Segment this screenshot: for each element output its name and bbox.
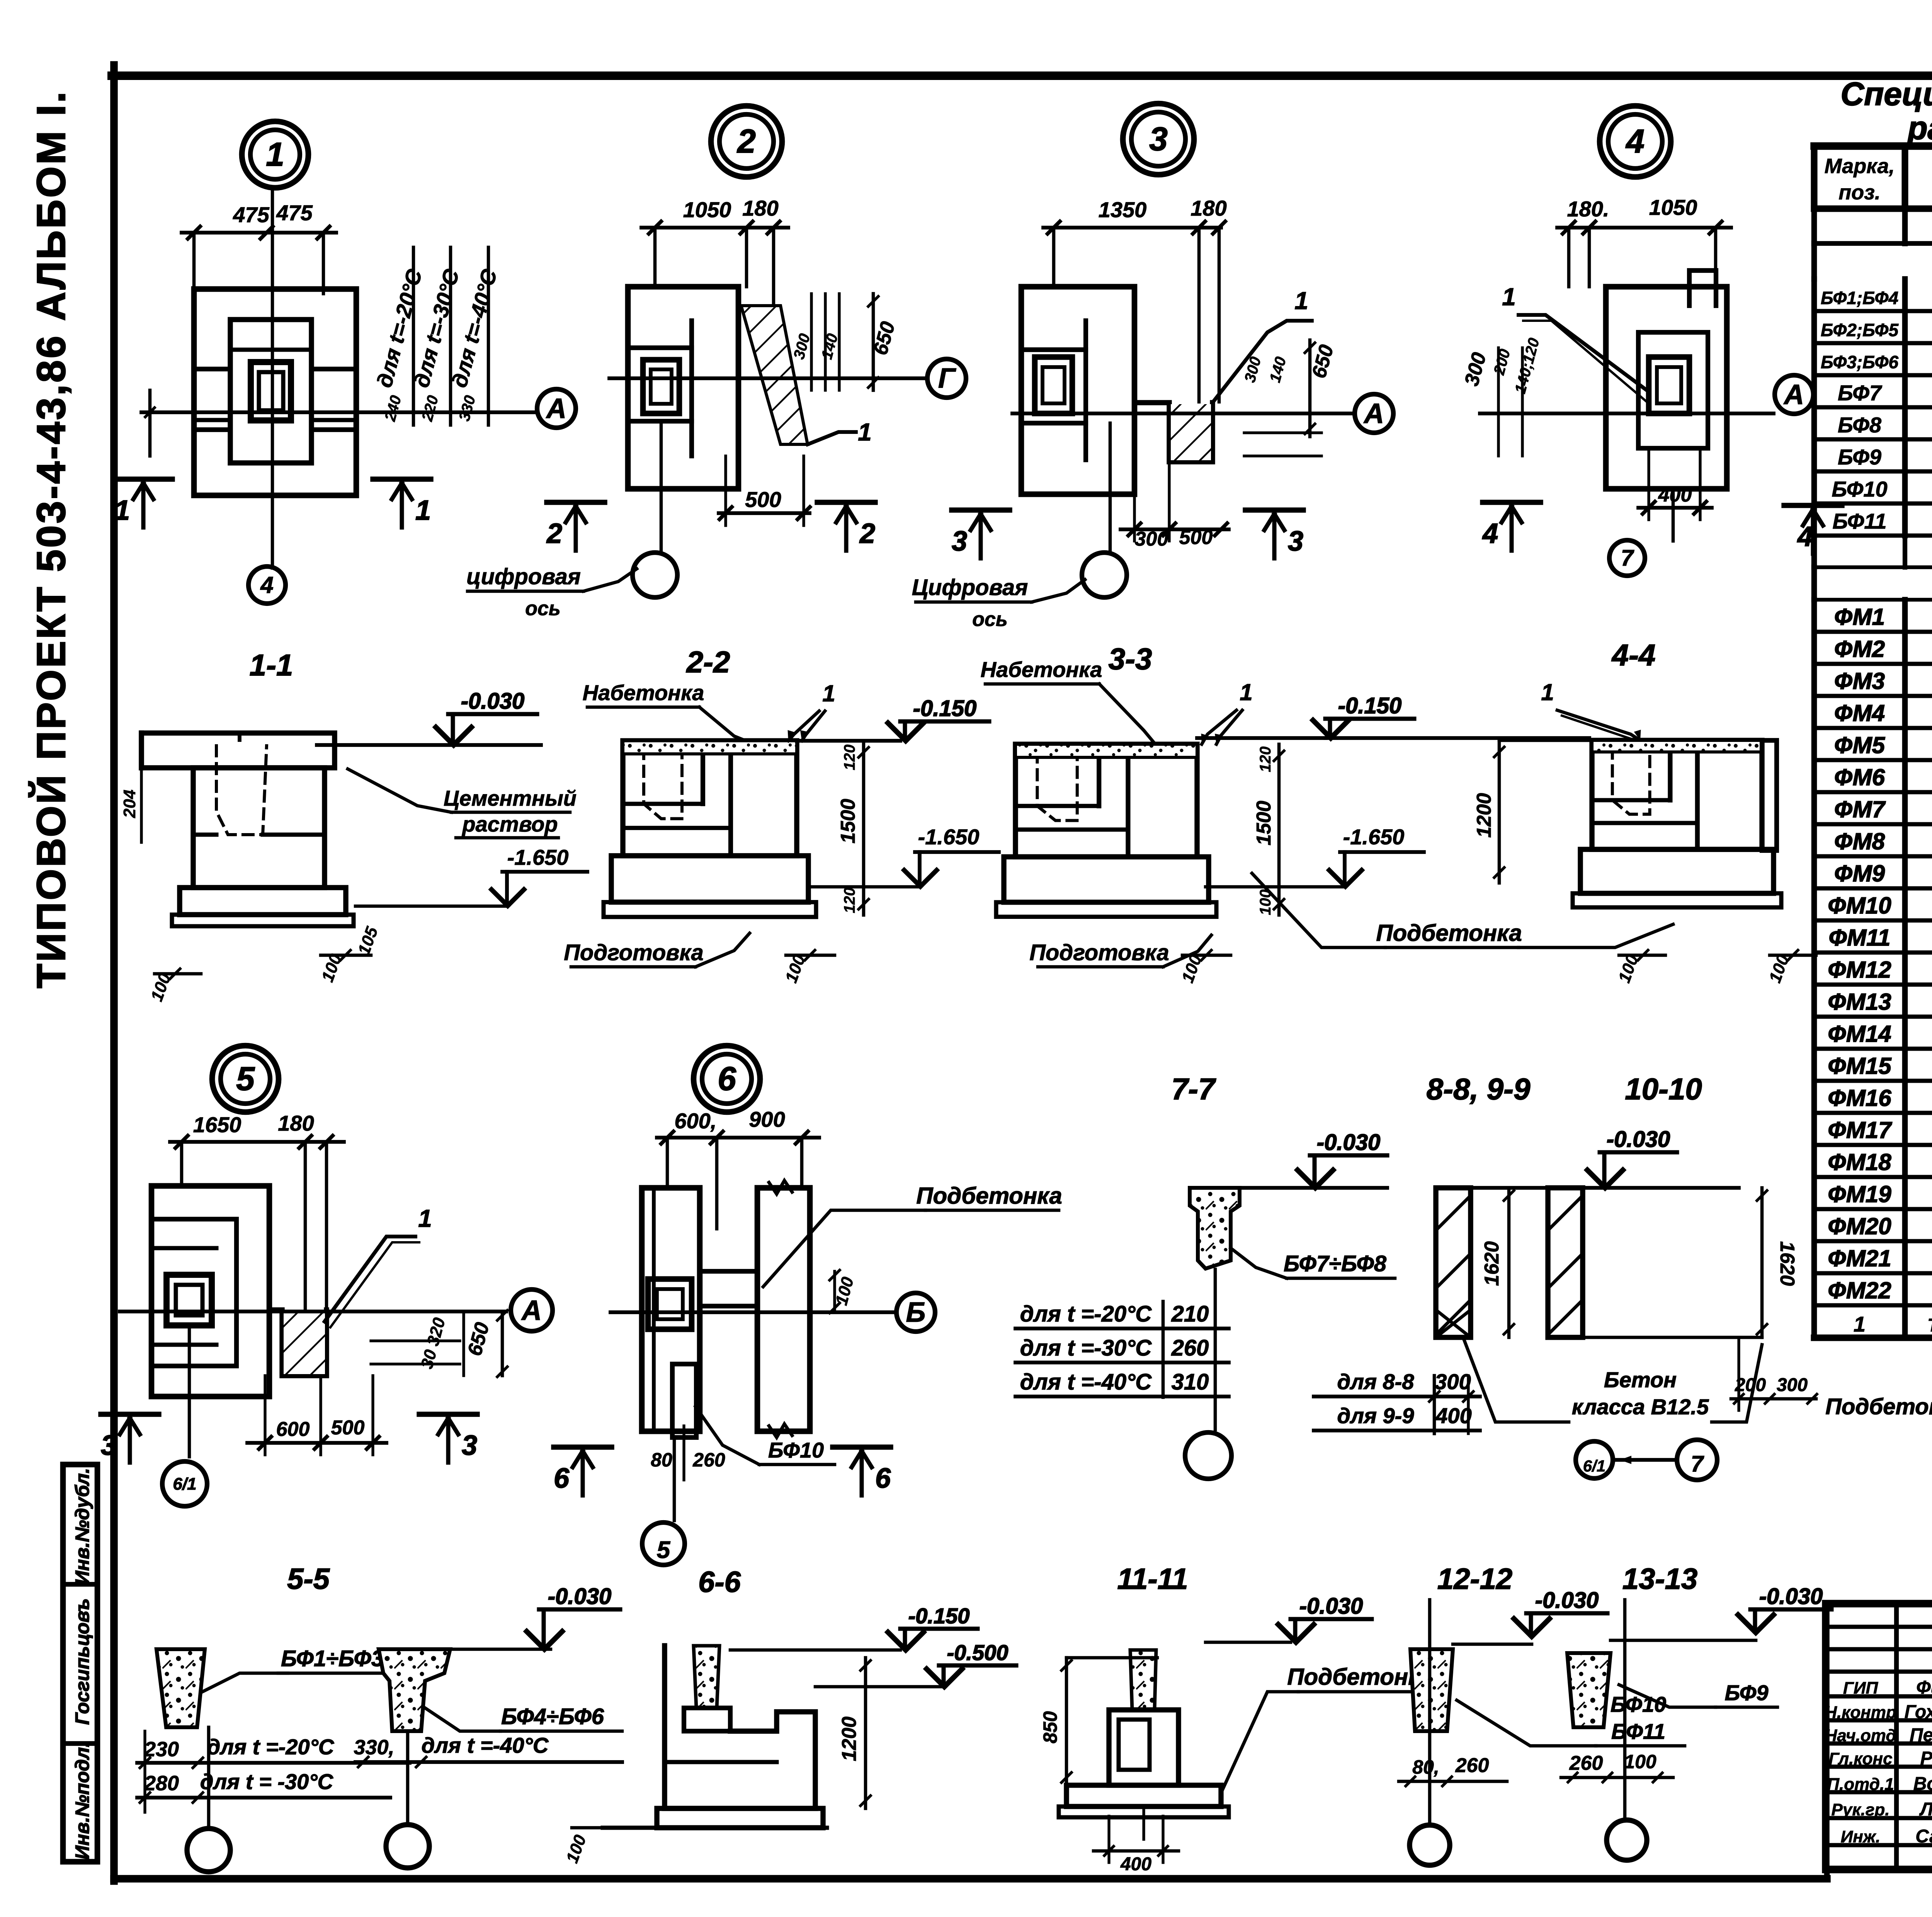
svg-text:ось: ось <box>972 608 1008 631</box>
svg-text:400: 400 <box>1435 1403 1471 1428</box>
svg-text:1: 1 <box>418 1204 432 1232</box>
svg-text:2: 2 <box>859 518 875 549</box>
svg-text:А: А <box>546 393 566 424</box>
svg-text:БФ1÷БФ3: БФ1÷БФ3 <box>281 1646 384 1671</box>
svg-text:475: 475 <box>233 202 269 227</box>
svg-text:ФМ21: ФМ21 <box>1828 1245 1891 1271</box>
svg-text:для t =-40°С: для t =-40°С <box>422 1733 549 1757</box>
svg-text:1050: 1050 <box>683 197 731 222</box>
svg-text:500: 500 <box>745 487 781 512</box>
svg-text:10-10: 10-10 <box>1625 1072 1702 1106</box>
svg-text:ФМ22: ФМ22 <box>1828 1277 1891 1303</box>
svg-text:260: 260 <box>1569 1752 1603 1774</box>
svg-text:5: 5 <box>236 1060 255 1097</box>
svg-text:1500: 1500 <box>837 799 859 844</box>
svg-text:210: 210 <box>1171 1301 1209 1327</box>
svg-text:1: 1 <box>1541 679 1554 705</box>
svg-text:80,: 80, <box>1412 1756 1439 1778</box>
svg-text:260: 260 <box>1455 1754 1489 1777</box>
svg-text:1: 1 <box>114 495 130 526</box>
svg-text:180.: 180. <box>1567 197 1609 221</box>
svg-text:ТП503-4-43.86Альбом IV: ТП503-4-43.86Альбом IV <box>1927 1315 1932 1336</box>
svg-text:Сабчук: Сабчук <box>1915 1826 1932 1847</box>
svg-text:204: 204 <box>120 789 139 818</box>
svg-text:Инв.№подл.: Инв.№подл. <box>71 1742 93 1860</box>
svg-text:1200: 1200 <box>1473 793 1495 838</box>
svg-text:А: А <box>1783 379 1804 410</box>
svg-text:330,: 330, <box>354 1736 394 1759</box>
svg-text:Инж.: Инж. <box>1841 1827 1881 1846</box>
svg-text:500: 500 <box>331 1417 365 1439</box>
svg-text:ФМ6: ФМ6 <box>1834 764 1885 790</box>
svg-text:П.отд.1: П.отд.1 <box>1827 1775 1894 1794</box>
svg-text:ФМ12: ФМ12 <box>1828 957 1891 983</box>
svg-text:7: 7 <box>1621 546 1634 571</box>
svg-text:БФ4÷БФ6: БФ4÷БФ6 <box>501 1704 604 1729</box>
svg-text:7-7: 7-7 <box>1172 1072 1216 1106</box>
svg-text:2: 2 <box>736 123 756 160</box>
svg-text:Г: Г <box>938 363 956 394</box>
svg-text:класса В12.5: класса В12.5 <box>1572 1395 1709 1419</box>
svg-text:1500: 1500 <box>1253 801 1275 845</box>
svg-text:280: 280 <box>144 1772 179 1795</box>
svg-text:5-5: 5-5 <box>287 1563 330 1596</box>
svg-text:-1.650: -1.650 <box>507 845 569 869</box>
svg-text:ФМ8: ФМ8 <box>1834 828 1885 854</box>
svg-text:А: А <box>521 1295 542 1326</box>
svg-text:ФМ19: ФМ19 <box>1828 1181 1891 1207</box>
svg-text:300: 300 <box>1435 1369 1471 1394</box>
svg-text:6-6: 6-6 <box>698 1566 741 1599</box>
svg-text:ФМ17: ФМ17 <box>1828 1117 1892 1143</box>
svg-text:-0.030: -0.030 <box>1759 1584 1823 1609</box>
svg-text:180: 180 <box>1190 196 1226 220</box>
svg-text:БФ8: БФ8 <box>1838 413 1882 437</box>
svg-text:Н.контр: Н.контр <box>1825 1703 1896 1722</box>
svg-text:400: 400 <box>1120 1854 1151 1874</box>
svg-text:БФ1;БФ4: БФ1;БФ4 <box>1821 288 1898 308</box>
svg-text:Подбетонка: Подбетонка <box>916 1183 1062 1209</box>
svg-text:ФМ9: ФМ9 <box>1834 861 1885 886</box>
svg-text:300: 300 <box>1135 528 1168 550</box>
svg-text:Воинов: Воинов <box>1913 1774 1932 1794</box>
svg-text:ФМ5: ФМ5 <box>1834 732 1886 758</box>
svg-text:Подготовка: Подготовка <box>1029 940 1169 965</box>
svg-text:Б: Б <box>906 1297 926 1328</box>
svg-text:Фишер: Фишер <box>1916 1677 1932 1698</box>
svg-text:ФМ13: ФМ13 <box>1828 989 1891 1015</box>
svg-text:180: 180 <box>278 1111 314 1135</box>
svg-text:1: 1 <box>415 495 431 526</box>
svg-text:3: 3 <box>1288 526 1303 557</box>
svg-text:Спецификация элементов к: Спецификация элементов к схеме <box>1840 76 1932 112</box>
svg-text:120: 120 <box>1257 747 1274 772</box>
svg-text:ГИП: ГИП <box>1843 1679 1879 1698</box>
svg-text:3: 3 <box>1149 121 1168 158</box>
svg-text:Лесец: Лесец <box>1919 1799 1932 1820</box>
svg-text:-0.030: -0.030 <box>1535 1588 1599 1613</box>
svg-text:ФМ2: ФМ2 <box>1834 636 1885 662</box>
svg-text:7: 7 <box>1691 1451 1704 1476</box>
svg-text:1: 1 <box>1854 1312 1866 1336</box>
svg-text:Нач.отд: Нач.отд <box>1825 1726 1896 1745</box>
svg-text:БФ10: БФ10 <box>768 1438 824 1462</box>
svg-text:ФМ18: ФМ18 <box>1828 1149 1891 1175</box>
svg-text:80: 80 <box>651 1449 672 1471</box>
svg-text:1650: 1650 <box>193 1112 241 1137</box>
svg-text:ФМ15: ФМ15 <box>1828 1053 1892 1079</box>
svg-text:1350: 1350 <box>1099 197 1147 222</box>
svg-text:3: 3 <box>462 1430 477 1461</box>
svg-text:ФМ4: ФМ4 <box>1834 700 1885 726</box>
svg-text:120: 120 <box>841 888 858 913</box>
svg-text:-0.030: -0.030 <box>1317 1130 1380 1155</box>
svg-text:4: 4 <box>1482 518 1498 549</box>
svg-text:ТИПОВОЙ ПРОЕКТ 503-4-43,86: ТИПОВОЙ ПРОЕКТ 503-4-43,86 АЛЬБОМ I. <box>29 90 74 988</box>
svg-text:Подготовка: Подготовка <box>564 940 704 965</box>
svg-text:900: 900 <box>749 1107 785 1131</box>
svg-text:ФМ3: ФМ3 <box>1834 668 1885 694</box>
svg-text:120: 120 <box>841 745 858 771</box>
svg-text:3: 3 <box>952 526 967 557</box>
svg-text:-0.500: -0.500 <box>947 1640 1009 1665</box>
svg-text:БФ7: БФ7 <box>1838 381 1883 405</box>
svg-text:1-1: 1-1 <box>250 648 293 682</box>
svg-text:ось: ось <box>525 597 561 620</box>
svg-text:для t =-40°С: для t =-40°С <box>1020 1369 1152 1395</box>
svg-text:1050: 1050 <box>1649 195 1697 219</box>
svg-text:4-4: 4-4 <box>1611 638 1656 672</box>
svg-text:1: 1 <box>858 418 872 446</box>
svg-text:Марка,: Марка, <box>1825 155 1895 178</box>
svg-text:для t =-20°С: для t =-20°С <box>1020 1301 1152 1327</box>
svg-text:БФ3;БФ6: БФ3;БФ6 <box>1821 352 1898 372</box>
svg-text:12-12: 12-12 <box>1437 1563 1512 1596</box>
svg-text:ФМ7: ФМ7 <box>1834 796 1886 822</box>
svg-text:6: 6 <box>554 1463 570 1494</box>
svg-text:600: 600 <box>276 1418 310 1441</box>
svg-text:ФМ16: ФМ16 <box>1828 1085 1891 1111</box>
svg-text:3: 3 <box>101 1430 116 1461</box>
svg-text:БФ7÷БФ8: БФ7÷БФ8 <box>1284 1251 1387 1276</box>
svg-text:Подбетонка: Подбетонка <box>1376 920 1522 946</box>
svg-text:-0.030: -0.030 <box>1299 1594 1363 1619</box>
svg-text:ФМ10: ФМ10 <box>1828 893 1891 919</box>
svg-text:Набетонка: Набетонка <box>583 680 704 705</box>
svg-text:1: 1 <box>1294 287 1308 315</box>
svg-text:-0.150: -0.150 <box>908 1604 970 1628</box>
svg-text:475: 475 <box>276 201 313 225</box>
svg-text:6: 6 <box>718 1060 736 1097</box>
svg-text:для 8-8: для 8-8 <box>1337 1369 1415 1394</box>
svg-text:БФ11: БФ11 <box>1611 1719 1665 1744</box>
svg-text:11-11: 11-11 <box>1117 1563 1188 1596</box>
svg-text:4: 4 <box>1625 123 1645 160</box>
svg-text:13-13: 13-13 <box>1622 1563 1697 1596</box>
svg-text:4: 4 <box>260 572 273 598</box>
svg-text:Подбетонки и набетонки выпо: Подбетонки и набетонки выполнять из бето… <box>1825 1394 1932 1419</box>
svg-text:5: 5 <box>657 1537 671 1563</box>
svg-text:260: 260 <box>692 1449 725 1471</box>
svg-text:180: 180 <box>742 196 778 220</box>
svg-text:1620: 1620 <box>1481 1241 1503 1286</box>
svg-text:А: А <box>1363 398 1384 429</box>
svg-text:1620: 1620 <box>1776 1241 1798 1286</box>
svg-text:Цементный: Цементный <box>444 786 577 810</box>
svg-text:8-8, 9-9: 8-8, 9-9 <box>1427 1072 1531 1106</box>
svg-text:БФ10: БФ10 <box>1832 477 1887 501</box>
svg-text:-1.650: -1.650 <box>1343 825 1405 849</box>
svg-text:300: 300 <box>1777 1375 1808 1395</box>
svg-text:-0.150: -0.150 <box>913 696 976 721</box>
svg-text:1: 1 <box>822 680 835 706</box>
svg-text:1: 1 <box>1502 283 1516 311</box>
svg-text:Инв.№дубл.: Инв.№дубл. <box>71 1468 93 1585</box>
svg-text:2: 2 <box>546 518 562 549</box>
svg-text:400: 400 <box>1658 484 1692 506</box>
svg-text:500: 500 <box>1179 526 1213 549</box>
svg-text:БФ9: БФ9 <box>1725 1681 1768 1705</box>
svg-text:для 9-9: для 9-9 <box>1337 1403 1414 1428</box>
svg-text:Цифровая: Цифровая <box>912 575 1028 600</box>
svg-text:цифровая: цифровая <box>466 564 581 589</box>
svg-text:-1.650: -1.650 <box>918 825 980 849</box>
svg-text:6: 6 <box>875 1463 891 1494</box>
svg-text:БФ10: БФ10 <box>1611 1692 1666 1716</box>
svg-text:2-2: 2-2 <box>686 645 730 679</box>
svg-text:БФ2;БФ5: БФ2;БФ5 <box>1821 320 1899 340</box>
svg-text:3-3: 3-3 <box>1109 642 1152 676</box>
svg-text:-0.150: -0.150 <box>1338 693 1401 718</box>
svg-text:850: 850 <box>1039 1711 1061 1744</box>
svg-text:1: 1 <box>266 136 284 173</box>
svg-text:Рубан: Рубан <box>1920 1748 1932 1769</box>
svg-text:-0.030: -0.030 <box>548 1584 611 1609</box>
svg-text:для t = -30°С: для t = -30°С <box>200 1769 334 1794</box>
svg-text:ФМ14: ФМ14 <box>1828 1021 1891 1047</box>
svg-text:1200: 1200 <box>838 1716 861 1761</box>
svg-text:6/1: 6/1 <box>1583 1457 1605 1475</box>
svg-text:1: 1 <box>1240 679 1252 705</box>
svg-text:600,: 600, <box>675 1109 717 1133</box>
svg-text:Бетон: Бетон <box>1604 1368 1677 1392</box>
svg-text:Рук.гр.: Рук.гр. <box>1832 1800 1890 1819</box>
svg-text:ФМ11: ФМ11 <box>1829 925 1891 951</box>
svg-text:260: 260 <box>1171 1335 1209 1361</box>
svg-text:БФ11: БФ11 <box>1832 509 1886 533</box>
svg-text:-0.030: -0.030 <box>1607 1127 1670 1152</box>
svg-text:для t =-30°С: для t =-30°С <box>1020 1335 1152 1361</box>
svg-text:Госгипьцовъ: Госгипьцовъ <box>71 1598 93 1725</box>
svg-text:ФМ1: ФМ1 <box>1834 604 1885 630</box>
svg-text:поз.: поз. <box>1838 181 1881 204</box>
svg-text:310: 310 <box>1172 1369 1209 1395</box>
svg-text:-0.030: -0.030 <box>461 689 524 714</box>
svg-text:Набетонка: Набетонка <box>981 657 1102 682</box>
svg-text:6/1: 6/1 <box>173 1475 196 1493</box>
svg-text:раствор: раствор <box>461 812 558 836</box>
svg-text:Гл.конс: Гл.конс <box>1828 1749 1892 1768</box>
svg-text:ФМ20: ФМ20 <box>1828 1213 1891 1239</box>
svg-text:БФ9: БФ9 <box>1838 445 1881 469</box>
svg-text:Гохнович: Гохнович <box>1905 1702 1932 1722</box>
svg-text:для t =-20°С: для t =-20°С <box>207 1735 335 1759</box>
svg-text:4: 4 <box>1797 521 1813 552</box>
svg-text:Пешкин.: Пешкин. <box>1910 1725 1932 1745</box>
svg-text:расположения фундаментов: расположения фундаментов <box>1907 110 1932 146</box>
svg-text:100: 100 <box>1624 1751 1656 1772</box>
